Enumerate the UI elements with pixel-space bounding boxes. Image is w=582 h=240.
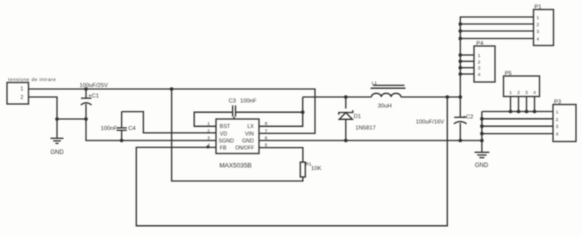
ground right	[475, 152, 490, 169]
svg-text:P3: P3	[554, 100, 561, 106]
op-amp U1 MAX5035B	[216, 119, 259, 154]
svg-text:GND: GND	[242, 138, 254, 144]
svg-text:100uF/25V: 100uF/25V	[80, 83, 108, 89]
svg-text:3: 3	[537, 29, 540, 34]
wire ground bus to P3 pin4	[482, 133, 553, 135]
svg-text:1: 1	[21, 87, 24, 93]
wire C4 top loop to VD pin	[122, 112, 216, 133]
svg-text:3: 3	[525, 90, 528, 95]
wire ground bus to P3 pin1	[482, 111, 553, 113]
wire P5 pin2 drop	[518, 97, 520, 112]
svg-text:ON/OFF: ON/OFF	[235, 146, 254, 152]
svg-text:30uH: 30uH	[378, 104, 392, 110]
connector P4	[474, 46, 495, 82]
svg-text:2: 2	[478, 59, 481, 64]
svg-text:1N5817: 1N5817	[355, 125, 375, 131]
svg-text:1: 1	[207, 121, 210, 126]
capacitor C2	[454, 97, 467, 141]
svg-text:VD: VD	[220, 131, 228, 137]
wire ground node down to GND symbol	[56, 119, 58, 138]
wire GND pin to right ground bus	[259, 140, 482, 142]
svg-text:LX: LX	[247, 124, 254, 130]
svg-text:7: 7	[265, 128, 268, 133]
svg-text:2: 2	[537, 22, 540, 27]
svg-text:100uF/16V: 100uF/16V	[416, 119, 444, 125]
wire to P4 pin2	[460, 60, 474, 62]
svg-text:MAX5035B: MAX5035B	[219, 163, 251, 170]
svg-text:+C2: +C2	[463, 115, 474, 121]
resistor R1	[300, 162, 305, 177]
svg-text:4: 4	[478, 72, 481, 77]
svg-text:FB: FB	[220, 146, 227, 152]
wire P5 pin3 drop	[526, 97, 528, 112]
svg-text:5: 5	[265, 143, 268, 148]
wire ground bus to P3 pin3	[482, 125, 553, 127]
wire J1 pin2 to ground node	[29, 97, 58, 119]
wire LX pin up to switch node line	[259, 97, 303, 126]
wire to P4 pin3	[460, 67, 474, 69]
svg-text:2: 2	[556, 117, 559, 122]
wire R1 pullup loop from VIN rail down and right	[172, 89, 303, 181]
svg-text:2: 2	[207, 128, 210, 133]
svg-text:1: 1	[478, 53, 481, 58]
svg-text:VIN: VIN	[245, 131, 254, 137]
connector P3	[553, 105, 576, 142]
svg-text:3: 3	[478, 66, 481, 71]
svg-text:1: 1	[556, 110, 559, 115]
connector P5	[504, 76, 540, 97]
svg-text:2: 2	[517, 90, 520, 95]
svg-text:2: 2	[21, 95, 24, 101]
svg-text:100nF: 100nF	[240, 99, 257, 105]
wire to P1 pin3	[460, 30, 533, 32]
wire P5 pin1 drop	[510, 97, 512, 112]
svg-text:100nF: 100nF	[101, 126, 118, 132]
wire right ground bus vertical	[481, 112, 483, 152]
connector J1 tensiune de intrare	[7, 83, 29, 105]
svg-text:10K: 10K	[311, 166, 321, 172]
svg-text:L1: L1	[372, 81, 378, 87]
capacitor C3	[233, 105, 236, 119]
ground left	[50, 138, 64, 156]
wire ground node horizontal to C1 bottom	[57, 118, 86, 120]
wire to P4 pin4	[460, 73, 474, 75]
wire switch node to L1	[303, 96, 372, 98]
wire to P1 pin2	[460, 23, 533, 25]
diode D1	[339, 97, 353, 141]
svg-text:C3: C3	[229, 99, 236, 105]
svg-text:1: 1	[509, 90, 512, 95]
svg-text:3: 3	[207, 135, 210, 140]
wire VIN rail from J1 pin1 to bend above VIN pin	[29, 89, 316, 133]
connector P1	[534, 10, 554, 46]
svg-text:4: 4	[556, 132, 559, 137]
svg-text:+C1: +C1	[88, 93, 99, 99]
svg-text:8: 8	[265, 121, 268, 126]
wire to P1 pin4	[460, 38, 533, 40]
svg-text:GND: GND	[475, 163, 489, 169]
svg-text:3: 3	[556, 124, 559, 129]
wire to P4 pin1	[460, 54, 474, 56]
svg-text:P4: P4	[476, 41, 484, 47]
inductor L1	[371, 85, 406, 97]
capacitor C1	[81, 89, 92, 119]
capacitor C4	[117, 112, 127, 141]
svg-text:1: 1	[537, 15, 540, 20]
wire C1 bottom down and right to SGND pin	[86, 119, 216, 141]
svg-text:P5: P5	[505, 71, 512, 77]
svg-text:P1: P1	[534, 4, 541, 10]
wire R1 top to ON/OFF pin	[259, 148, 303, 163]
svg-text:tensiune de intrare: tensiune de intrare	[8, 77, 56, 82]
wire BST loop from pin to C3	[194, 112, 232, 126]
wire L1 to output node	[401, 96, 460, 98]
wire ground bus to P3 pin2	[482, 118, 553, 120]
svg-text:BST: BST	[220, 124, 231, 130]
svg-text:C4: C4	[128, 126, 136, 132]
svg-text:6: 6	[265, 135, 268, 140]
svg-text:4: 4	[537, 37, 540, 42]
svg-text:GND: GND	[50, 150, 64, 156]
svg-text:D1: D1	[354, 114, 361, 120]
wire output bus up to P1 pin1	[460, 17, 533, 97]
svg-text:SGND: SGND	[219, 138, 234, 144]
wire C3 to LX vertical	[236, 111, 303, 113]
wire P5 pin4 drop	[534, 97, 536, 112]
wire FB feedback loop to output node	[136, 97, 447, 226]
svg-text:4: 4	[533, 90, 536, 95]
